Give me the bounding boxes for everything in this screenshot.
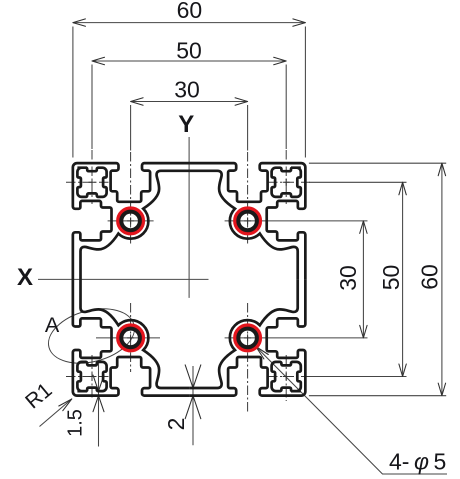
svg-text:60: 60 (416, 264, 442, 290)
svg-text:30: 30 (174, 77, 200, 103)
svg-text:50: 50 (176, 38, 202, 64)
svg-text:X: X (17, 264, 33, 291)
svg-text:Y: Y (178, 111, 194, 138)
svg-text:60: 60 (177, 0, 203, 23)
svg-text:A: A (45, 313, 60, 337)
svg-text:4-φ5: 4-φ5 (389, 449, 446, 475)
svg-text:50: 50 (378, 265, 404, 291)
svg-text:2: 2 (163, 418, 189, 431)
svg-text:30: 30 (335, 265, 361, 291)
svg-text:1.5: 1.5 (65, 409, 87, 437)
